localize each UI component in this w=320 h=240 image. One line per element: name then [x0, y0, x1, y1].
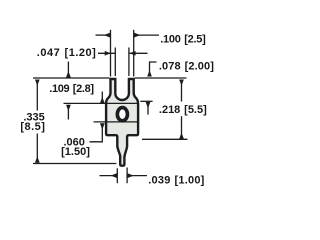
dimension .100 [2.5] arrows	[96, 34, 111, 36]
dimension .060 [1.50] leader (up onto E3 from below, L to text)	[90, 123, 103, 141]
svg-text:[1.50]: [1.50]	[61, 146, 90, 158]
dimension .335 [8.5] line upper segment	[36, 80, 38, 111]
dimension .078 [2.00] leader (stub + down arrow onto E1 right)	[150, 62, 157, 77]
svg-text:[8.5]: [8.5]	[20, 121, 45, 133]
dimension .218 [5.5] upper arrow (up onto E1 right)	[181, 80, 183, 102]
dimension .078 lower arrow (up onto slot-bottom line from below)	[147, 102, 149, 115]
svg-text:.109 [2.8]: .109 [2.8]	[49, 83, 94, 95]
extension line E2 (hole top tangent)	[64, 102, 139, 104]
extension line pin left edge (down)	[116, 168, 118, 183]
svg-text:.047 [1.20]: .047 [1.20]	[37, 47, 97, 59]
extension line A (left prong outer, up)	[110, 30, 112, 77]
dimension .047 [1.20] arrows (slot width, arrows outside)	[98, 52, 115, 54]
extension line D (right prong outer, up)	[133, 30, 135, 77]
extension line C (slot right, up)	[128, 48, 130, 77]
svg-text:.078 [2.00]: .078 [2.00]	[159, 60, 214, 72]
extension line E1 right (part top)	[135, 77, 187, 79]
hole in part	[117, 108, 127, 121]
dimension .039 [1.00] arrows (pin width, arrows outside)	[100, 175, 117, 177]
dimension .218 [5.5] lower arrow (down onto E4)	[181, 116, 183, 139]
part body (stamped pin outline with fill)	[106, 79, 138, 166]
dimension .109 tail arrow (up onto E2 from below)	[67, 105, 69, 120]
svg-text:.039 [1.00]: .039 [1.00]	[148, 175, 204, 187]
dimension .335 [8.5] line lower segment	[36, 134, 38, 163]
extension line B (slot left, up)	[114, 48, 116, 77]
dimension .109 [2.8] top arrow (down onto E1)	[67, 62, 69, 78]
svg-text:.100 [2.5]: .100 [2.5]	[160, 34, 206, 46]
extension line E3 (hole bottom tangent)	[94, 121, 139, 123]
extension line E4 (shoulder, right)	[142, 138, 188, 140]
dimension .109 [2.8] bottom arrow (down onto E2)	[101, 92, 103, 104]
extension line slot bottom (right)	[140, 100, 152, 102]
extension line E-bottom (pin tip, left for .335)	[33, 163, 116, 165]
extension line E1 left (part top, to .335)	[33, 77, 109, 79]
extension line pin right edge (down)	[126, 168, 128, 184]
svg-text:.218 [5.5]: .218 [5.5]	[159, 104, 207, 116]
